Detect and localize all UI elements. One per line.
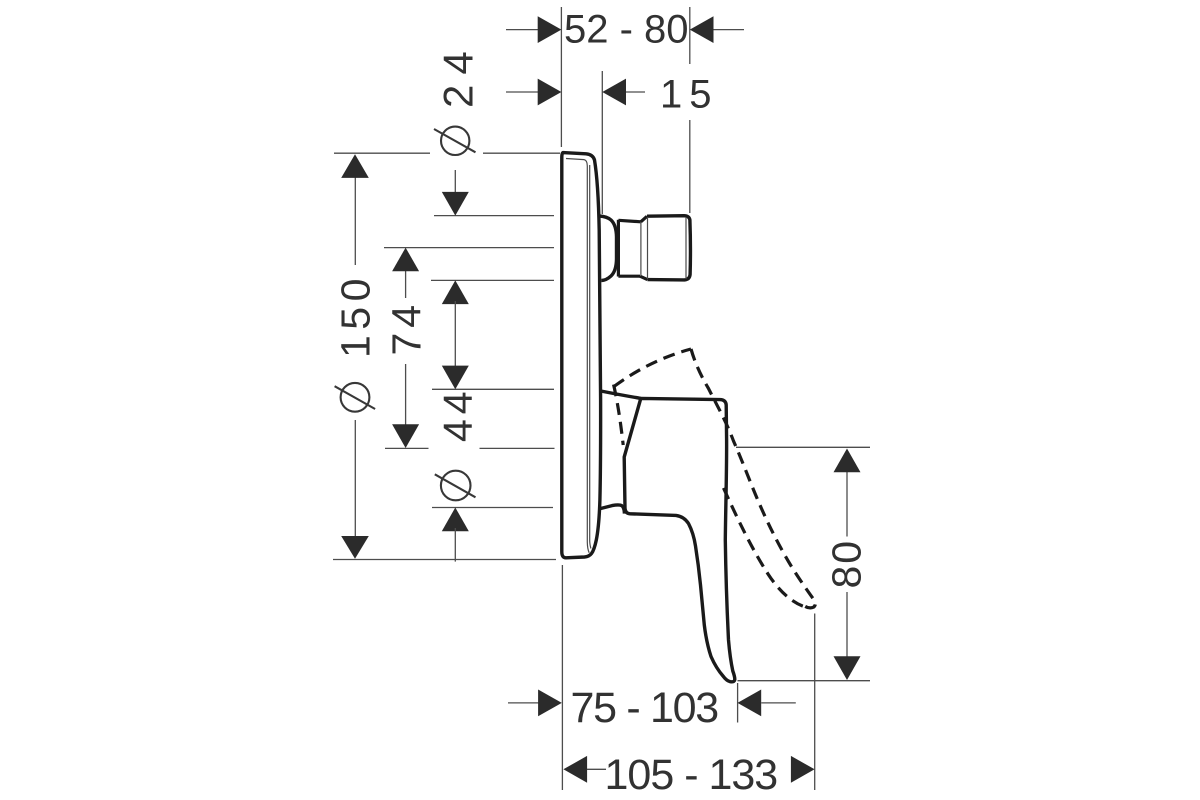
spout adapter neck step line: [640, 223, 642, 276]
arrow 75-103 left (outside, pointing right): [538, 690, 562, 717]
extension line 80 bottom (y=680.7): [738, 680, 871, 682]
diameter symbol of 24: [434, 127, 476, 155]
dimension line 75-103 left tail: [508, 702, 540, 704]
spout adapter cylinder inner edge lines: [648, 217, 687, 279]
arrow 105-133 left (inside, pointing left): [563, 756, 587, 783]
arrow 80 top (pointing up): [834, 449, 861, 473]
svg-text:80: 80: [824, 539, 870, 589]
arrow 24 bottom (outside below, pointing up): [442, 280, 469, 304]
extension line plate bottom / dim 150 bottom (y=558.6): [333, 559, 556, 561]
dimension line 24 upper shaft (x=455.3): [454, 170, 456, 194]
arrow 150 bottom (pointing down): [341, 536, 369, 559]
arrow 24 top (outside above, pointing down): [442, 192, 469, 216]
svg-text:105 - 133: 105 - 133: [605, 751, 778, 799]
arrow 44 top (outside above, pointing down): [442, 366, 469, 390]
arrow 15 right (outside, pointing left): [602, 79, 626, 106]
handle dashed alternate position: lower edge: [614, 349, 691, 387]
dimension line 74 (x=405.6): [405, 266, 407, 430]
extension line top of plate / dim 150 top (y=152.5): [334, 152, 560, 154]
dimension line 105-133: [587, 768, 606, 770]
svg-text:15: 15: [660, 72, 719, 116]
spout adapter cylinder: [647, 216, 690, 280]
svg-text:150: 150: [333, 273, 379, 358]
svg-text:52 - 80: 52 - 80: [564, 7, 689, 51]
svg-text:74: 74: [384, 300, 430, 356]
arrow 80 bottom (pointing down): [834, 656, 861, 680]
escutcheon plate outline: [562, 153, 601, 558]
extension line right of dim 52-80 (x=689.8, gap for text): [689, 7, 691, 213]
dimension line 150 (x=356): [354, 177, 356, 537]
svg-text:44: 44: [435, 386, 481, 442]
extension line cone bottom (y=507.5): [432, 507, 553, 509]
svg-text:75 - 103: 75 - 103: [571, 684, 719, 732]
arrow 150 top (pointing up): [341, 154, 369, 178]
spout adapter neck: [618, 216, 647, 279]
arrow 74 top (pointing up): [392, 248, 419, 272]
cartridge cone top edge: [601, 391, 641, 398]
extension line adapter centre (y=247.6): [384, 247, 554, 249]
dimension line 75-103 right tail: [761, 702, 796, 704]
dimension line 52-80 left tail: [506, 29, 539, 31]
extension line cartridge centre (y=448.2, gap for 44 text): [385, 447, 555, 449]
handle dashed alternate position: back edge to tip: [691, 349, 815, 608]
diameter symbol small (lower): [435, 471, 476, 501]
arrow 74 bottom (pointing down): [392, 424, 419, 448]
dimension line 52-80 right tail: [714, 29, 745, 31]
handle (solid position): [624, 398, 735, 681]
arrow 52-80 left (outside, pointing right): [538, 16, 562, 43]
handle dashed alternate position: front edge lower stub: [614, 385, 624, 446]
shared shaft between 24 and 44 (x=455.3): [454, 301, 456, 369]
plate face inner line 1: [566, 159, 589, 553]
extension line adapter bottom (y=280.4): [431, 279, 554, 281]
dimension line 15 left tail: [506, 91, 539, 93]
svg-text:24: 24: [435, 41, 482, 108]
extension line wall bottom (x=562.4): [561, 565, 563, 790]
arrow 105-133 right (inside, pointing right): [791, 756, 815, 783]
extension line handle top (y=389.3): [432, 388, 554, 390]
dimension line 15 right tail: [626, 91, 645, 93]
cartridge cone bottom edge: [600, 505, 624, 514]
handle dashed alternate position: front edge: [724, 488, 808, 608]
extension line dashed tip (x=814.7): [814, 614, 816, 791]
arrow 75-103 right (outside, pointing left): [738, 690, 762, 717]
extension line 80 top (y=447.3): [736, 446, 870, 448]
plate face inner line 2: [590, 165, 591, 549]
arrow small diameter (outside below, pointing up): [442, 508, 469, 532]
shaft below small diameter arrow: [454, 528, 456, 562]
dimension line 80 (x=847): [846, 471, 848, 658]
arrow 15 left (outside, pointing right): [538, 79, 562, 106]
arrow 52-80 right (outside, pointing left): [690, 16, 714, 43]
diameter symbol of 150: [335, 383, 376, 412]
extension line handle tip (x=737.6): [737, 683, 739, 723]
spout adapter flange (bump on plate): [599, 216, 616, 281]
extension line right of dim 15 (x=602.3): [601, 71, 603, 214]
extension line adapter top (y=215.6): [434, 215, 554, 217]
extension line left of dim 52-80 (top, x=561.4): [560, 7, 562, 147]
